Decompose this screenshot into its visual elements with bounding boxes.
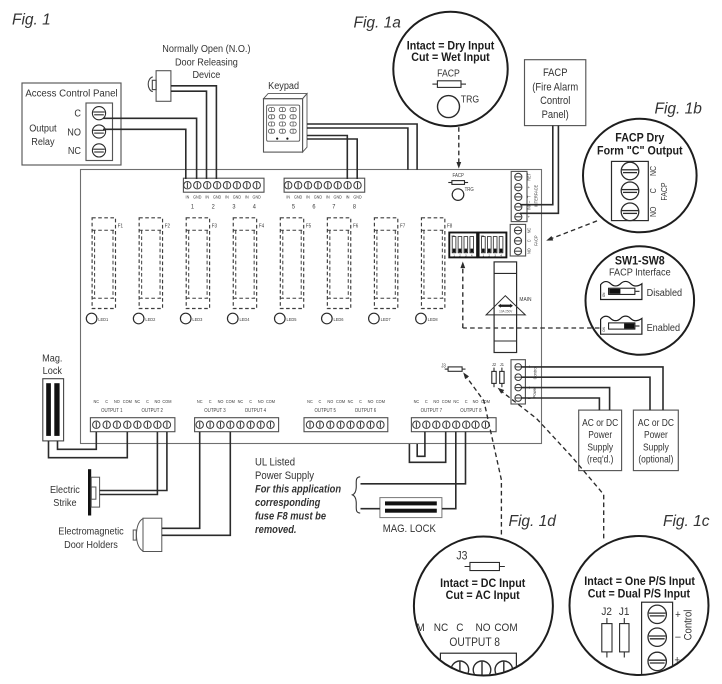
svg-text:FACP: FACP — [543, 67, 568, 79]
svg-text:COM: COM — [336, 399, 346, 404]
svg-text:Fig. 1d: Fig. 1d — [509, 513, 558, 530]
svg-text:Electric: Electric — [50, 484, 80, 496]
svg-text:COM: COM — [226, 399, 236, 404]
svg-text:OUTPUT 4: OUTPUT 4 — [245, 408, 267, 413]
svg-text:(req'd.): (req'd.) — [587, 454, 613, 465]
svg-text:TRG: TRG — [465, 187, 474, 192]
svg-text:AC or DC: AC or DC — [582, 417, 618, 428]
svg-text:NC: NC — [68, 146, 81, 158]
svg-text:Power: Power — [644, 430, 668, 441]
svg-text:RET: RET — [526, 173, 531, 181]
svg-text:OUTPUT 7: OUTPUT 7 — [421, 408, 443, 413]
svg-text:Fig. 1: Fig. 1 — [12, 12, 51, 29]
svg-text:J2: J2 — [492, 362, 497, 367]
svg-text:Fig. 1a: Fig. 1a — [354, 15, 402, 32]
svg-text:corresponding: corresponding — [255, 497, 321, 509]
svg-text:MAIN: MAIN — [519, 297, 531, 303]
svg-text:NC: NC — [453, 399, 459, 404]
svg-text:NO: NO — [649, 206, 659, 217]
svg-text:Door Releasing: Door Releasing — [175, 57, 238, 69]
svg-text:GND: GND — [253, 194, 261, 199]
svg-text:GND: GND — [353, 194, 361, 199]
svg-text:C: C — [526, 239, 531, 242]
svg-text:Cut = AC Input: Cut = AC Input — [446, 590, 520, 602]
svg-text:F4: F4 — [259, 223, 265, 229]
svg-text:Intact = DC Input: Intact = DC Input — [440, 578, 525, 590]
svg-text:LED5: LED5 — [287, 317, 298, 322]
svg-text:J1: J1 — [500, 362, 505, 367]
svg-text:–: – — [675, 631, 681, 643]
svg-text:C: C — [146, 399, 149, 404]
svg-text:COM: COM — [123, 399, 133, 404]
svg-text:NO: NO — [218, 399, 225, 404]
svg-text:LED3: LED3 — [192, 317, 203, 322]
svg-text:C: C — [359, 399, 362, 404]
svg-text:OUTPUT 2: OUTPUT 2 — [142, 408, 164, 413]
svg-text:Keypad: Keypad — [268, 80, 299, 92]
svg-text:FACP: FACP — [660, 182, 670, 200]
svg-text:MAG. LOCK: MAG. LOCK — [383, 524, 436, 536]
svg-text:NO: NO — [67, 127, 81, 139]
svg-text:(optional): (optional) — [638, 454, 673, 465]
svg-text:C: C — [465, 399, 468, 404]
svg-text:IN: IN — [245, 194, 249, 199]
svg-text:Relay: Relay — [31, 136, 54, 148]
svg-text:F1: F1 — [118, 223, 124, 229]
svg-text:LED4: LED4 — [239, 317, 250, 322]
svg-text:IN: IN — [225, 194, 229, 199]
svg-text:Supply: Supply — [643, 442, 669, 453]
svg-text:GND: GND — [213, 194, 221, 199]
svg-text:Power Supply: Power Supply — [255, 470, 315, 482]
svg-text:Power: Power — [588, 430, 612, 441]
svg-text:F6: F6 — [353, 223, 359, 229]
svg-text:LED6: LED6 — [334, 317, 345, 322]
svg-text:ON: ON — [602, 292, 606, 297]
svg-text:Device: Device — [192, 70, 220, 82]
svg-text:F7: F7 — [400, 223, 406, 229]
svg-text:Fig. 1b: Fig. 1b — [655, 101, 703, 118]
svg-text:LED1: LED1 — [98, 317, 109, 322]
svg-text:For this application: For this application — [255, 484, 341, 496]
svg-text:Lock: Lock — [43, 365, 62, 377]
svg-text:Disabled: Disabled — [647, 288, 683, 300]
svg-text:NO: NO — [526, 248, 531, 254]
svg-text:IN: IN — [326, 194, 330, 199]
svg-text:Mag.: Mag. — [42, 353, 62, 365]
svg-text:Electromagnetic: Electromagnetic — [58, 526, 123, 538]
svg-text:C: C — [456, 621, 463, 634]
svg-text:IN: IN — [286, 194, 290, 199]
svg-text:NC: NC — [434, 621, 449, 634]
svg-text:J2: J2 — [601, 605, 612, 618]
svg-text:Strike: Strike — [53, 497, 77, 509]
svg-text:C: C — [249, 399, 252, 404]
svg-text:C: C — [318, 399, 321, 404]
svg-text:C: C — [649, 188, 659, 194]
svg-text:(Fire Alarm: (Fire Alarm — [532, 82, 578, 94]
svg-text:NO: NO — [258, 399, 265, 404]
svg-text:NO: NO — [473, 399, 480, 404]
svg-text:J1: J1 — [619, 605, 630, 618]
svg-text:NC: NC — [649, 165, 659, 176]
svg-text:FACP: FACP — [533, 235, 538, 246]
svg-text:OUTPUT 1: OUTPUT 1 — [101, 408, 123, 413]
svg-text:Enabled: Enabled — [647, 322, 680, 334]
svg-text:OUTPUT 8: OUTPUT 8 — [449, 636, 500, 649]
svg-text:GND: GND — [314, 194, 322, 199]
svg-text:TRG: TRG — [461, 94, 479, 105]
svg-text:NO: NO — [154, 399, 161, 404]
svg-text:F8: F8 — [447, 223, 453, 229]
svg-text:IN: IN — [306, 194, 310, 199]
svg-text:GND: GND — [294, 194, 302, 199]
svg-text:COM: COM — [266, 399, 276, 404]
svg-text:INTERFACE: INTERFACE — [533, 185, 538, 208]
svg-text:C: C — [209, 399, 212, 404]
svg-text:IN: IN — [346, 194, 350, 199]
svg-text:+: + — [675, 609, 681, 621]
svg-text:Control: Control — [540, 96, 570, 108]
svg-text:NO: NO — [433, 399, 440, 404]
svg-text:Normally Open (N.O.): Normally Open (N.O.) — [162, 43, 250, 55]
svg-text:NC: NC — [197, 399, 203, 404]
svg-text:NO: NO — [368, 399, 375, 404]
svg-text:OUTPUT 5: OUTPUT 5 — [315, 408, 337, 413]
svg-text:NO: NO — [327, 399, 334, 404]
svg-text:Form "C" Output: Form "C" Output — [597, 145, 683, 157]
svg-text:GND: GND — [233, 194, 241, 199]
svg-text:FACP: FACP — [453, 173, 464, 178]
svg-text:10A 250V: 10A 250V — [499, 309, 513, 313]
svg-text:COM: COM — [481, 399, 491, 404]
svg-text:F2: F2 — [165, 223, 171, 229]
svg-text:Control: Control — [683, 610, 695, 641]
svg-text:Output: Output — [29, 123, 57, 135]
svg-text:F3: F3 — [212, 223, 218, 229]
svg-text:C: C — [425, 399, 428, 404]
svg-text:NO: NO — [476, 621, 491, 634]
svg-text:NC: NC — [414, 399, 420, 404]
svg-text:FACP Interface: FACP Interface — [609, 267, 671, 279]
svg-text:C: C — [105, 399, 108, 404]
svg-text:AC or DC: AC or DC — [638, 417, 674, 428]
svg-text:COM: COM — [442, 399, 452, 404]
svg-text:C: C — [74, 108, 81, 120]
svg-text:ON: ON — [602, 327, 606, 332]
svg-text:Fig. 1c: Fig. 1c — [663, 513, 710, 530]
svg-text:OUTPUT 3: OUTPUT 3 — [204, 408, 226, 413]
svg-text:UL Listed: UL Listed — [255, 457, 295, 469]
svg-text:IN: IN — [186, 194, 190, 199]
svg-text:NC: NC — [135, 399, 141, 404]
svg-text:COM: COM — [376, 399, 386, 404]
svg-text:IN: IN — [205, 194, 209, 199]
svg-text:GND: GND — [334, 194, 342, 199]
svg-text:J3: J3 — [441, 363, 446, 368]
svg-text:J3: J3 — [456, 550, 467, 563]
svg-text:NC: NC — [526, 228, 531, 234]
svg-text:Cut = Wet Input: Cut = Wet Input — [411, 52, 490, 64]
svg-text:Intact = One P/S Input: Intact = One P/S Input — [584, 576, 695, 588]
svg-text:GND: GND — [193, 194, 201, 199]
svg-text:fuse F8 must be: fuse F8 must be — [255, 511, 326, 523]
svg-text:OUTPUT 6: OUTPUT 6 — [355, 408, 377, 413]
svg-text:NC: NC — [307, 399, 313, 404]
svg-text:F5: F5 — [306, 223, 312, 229]
svg-text:COM: COM — [494, 621, 517, 634]
svg-text:LED8: LED8 — [428, 317, 439, 322]
svg-text:LED2: LED2 — [145, 317, 156, 322]
svg-text:Access Control Panel: Access Control Panel — [25, 88, 117, 99]
svg-text:Panel): Panel) — [542, 109, 569, 121]
svg-text:removed.: removed. — [255, 524, 296, 536]
svg-text:Supply: Supply — [587, 442, 613, 453]
svg-text:Cut = Dual P/S Input: Cut = Dual P/S Input — [588, 588, 691, 600]
svg-text:COM: COM — [162, 399, 172, 404]
svg-text:OUTPUT 8: OUTPUT 8 — [460, 408, 482, 413]
svg-text:LED7: LED7 — [381, 317, 392, 322]
svg-text:FACP Dry: FACP Dry — [615, 132, 665, 144]
svg-text:NC: NC — [238, 399, 244, 404]
svg-text:NC: NC — [348, 399, 354, 404]
svg-text:NC: NC — [93, 399, 99, 404]
svg-text:FACP: FACP — [437, 68, 460, 79]
svg-text:Door Holders: Door Holders — [64, 540, 118, 552]
svg-text:SW1-SW8: SW1-SW8 — [615, 255, 665, 267]
svg-text:NO: NO — [114, 399, 121, 404]
